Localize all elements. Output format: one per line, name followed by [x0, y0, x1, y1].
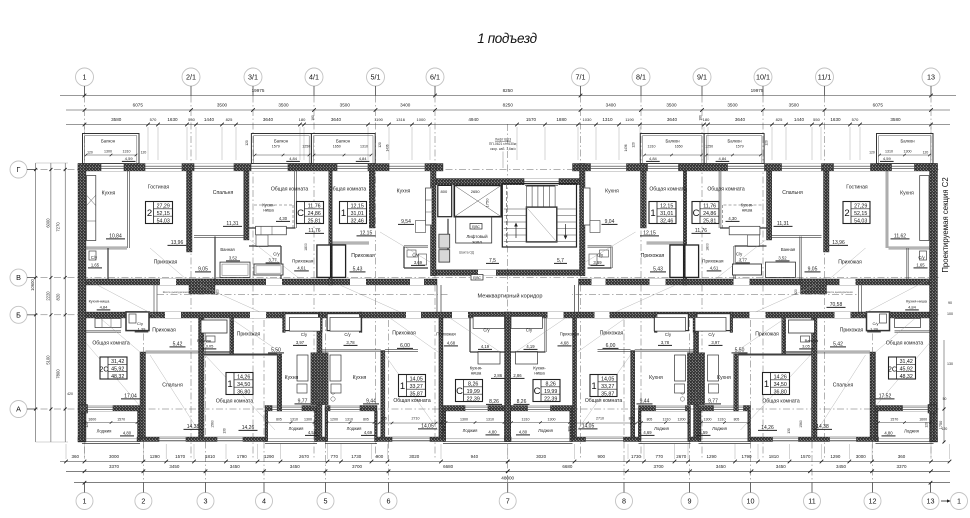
- studio L4 bath: [473, 316, 504, 328]
- svg-text:360: 360: [71, 454, 79, 459]
- svg-text:3020: 3020: [409, 454, 420, 459]
- svg-text:1650: 1650: [333, 145, 341, 149]
- partition studio su side (right): [733, 246, 735, 279]
- svg-text:33,27: 33,27: [410, 384, 423, 390]
- grid axis 9/1 (top): [693, 68, 711, 86]
- svg-text:48000: 48000: [501, 475, 514, 480]
- su pair walls lower: [285, 314, 319, 331]
- svg-text:Кухня: Кухня: [649, 375, 663, 381]
- vent shaft boxes upper: [317, 245, 331, 277]
- svg-text:Балкон: Балкон: [274, 139, 289, 144]
- svg-text:3500: 3500: [789, 103, 800, 108]
- center wall between studios (lower): [505, 318, 511, 437]
- svg-text:130: 130: [222, 428, 226, 434]
- electrical boxes: [470, 224, 482, 230]
- dim row 3 (detail spans): [66, 124, 950, 126]
- svg-text:180: 180: [699, 115, 703, 121]
- svg-text:1436: 1436: [624, 144, 628, 151]
- svg-text:4,80: 4,80: [884, 431, 893, 436]
- svg-text:1730: 1730: [631, 454, 642, 459]
- svg-text:1650: 1650: [675, 145, 683, 149]
- svg-text:360: 360: [898, 454, 906, 459]
- svg-text:8,26: 8,26: [468, 382, 478, 388]
- svg-text:4,84: 4,84: [359, 156, 368, 161]
- axis line 7 vertical (center): [507, 124, 509, 483]
- svg-text:1310: 1310: [885, 150, 893, 154]
- axis line Б horizontal: [27, 314, 940, 316]
- sink bath L2 lower: [206, 336, 215, 342]
- svg-text:А: А: [16, 405, 21, 414]
- svg-text:4,68: 4,68: [447, 341, 456, 346]
- svg-text:ниша: ниша: [263, 208, 274, 213]
- svg-text:10600: 10600: [30, 279, 35, 291]
- corridor centre dash line: [157, 293, 858, 295]
- svg-text:550: 550: [813, 117, 820, 122]
- svg-text:2С: 2С: [888, 366, 897, 373]
- svg-text:12,15: 12,15: [660, 204, 673, 210]
- svg-text:С/у: С/у: [91, 255, 98, 260]
- svg-text:1310: 1310: [360, 145, 368, 149]
- loggia L2 back wall (right): [699, 406, 751, 412]
- grid axis 2 (bottom): [135, 493, 152, 510]
- svg-text:940: 940: [471, 454, 479, 459]
- svg-text:825: 825: [226, 117, 233, 122]
- svg-text:3640: 3640: [735, 117, 746, 122]
- dim row 2 (axis spans): [66, 109, 950, 111]
- grid axis В (left): [10, 269, 27, 286]
- svg-text:3580: 3580: [890, 117, 901, 122]
- svg-text:25,81: 25,81: [703, 218, 716, 224]
- svg-text:С: С: [297, 208, 304, 219]
- svg-text:7/1: 7/1: [576, 73, 586, 82]
- axis line 9 vertical (bottom): [689, 320, 691, 493]
- svg-text:8250: 8250: [503, 88, 514, 93]
- svg-text:С/у: С/у: [526, 328, 533, 333]
- svg-text:35,87: 35,87: [410, 391, 423, 397]
- door/window loggia L1: [87, 406, 113, 412]
- svg-text:1: 1: [957, 497, 961, 506]
- wall L1 living/bedroom: [140, 352, 146, 437]
- svg-text:1570: 1570: [526, 117, 537, 122]
- axis line 10/1 vertical: [762, 96, 764, 461]
- svg-text:1436: 1436: [386, 144, 390, 151]
- stair arrows: [515, 224, 517, 238]
- svg-text:Проектируемая секция С2: Проектируемая секция С2: [941, 177, 950, 272]
- axis line 5/1 vertical: [375, 96, 377, 461]
- svg-text:1630: 1630: [167, 117, 178, 122]
- svg-text:120: 120: [378, 142, 382, 148]
- svg-text:Лоджия: Лоджия: [289, 426, 304, 431]
- partition su apt C bottom (right): [588, 266, 612, 268]
- center block lower wall: [436, 270, 580, 276]
- loggia L3 back wall (right): [639, 406, 691, 412]
- svg-text:4,69: 4,69: [643, 430, 652, 435]
- svg-text:С/у: С/у: [273, 252, 280, 257]
- svg-text:1300: 1300: [460, 418, 468, 422]
- svg-text:Спальня: Спальня: [213, 190, 234, 196]
- svg-text:1730: 1730: [351, 454, 362, 459]
- svg-text:1440: 1440: [204, 117, 215, 122]
- kitchen appliance apt C: [416, 221, 426, 233]
- svg-text:22,39: 22,39: [544, 396, 557, 402]
- balcony dim lines: [86, 154, 136, 156]
- svg-text:825: 825: [776, 117, 783, 122]
- svg-text:54,03: 54,03: [854, 218, 867, 224]
- svg-text:36,80: 36,80: [237, 389, 250, 395]
- elevator car: [456, 217, 492, 243]
- svg-text:1: 1: [83, 73, 87, 82]
- svg-text:Кухня: Кухня: [605, 189, 619, 195]
- axis line В horizontal: [27, 277, 940, 279]
- wall L2/L3 (right): [694, 318, 699, 437]
- wall L1/L2 (right): [812, 318, 818, 437]
- svg-text:48,32: 48,32: [900, 374, 913, 380]
- svg-text:1570: 1570: [890, 418, 898, 422]
- svg-text:3,52: 3,52: [778, 256, 787, 261]
- svg-text:ниша: ниша: [534, 371, 545, 376]
- grid axis 1 (bottom): [76, 493, 93, 510]
- axis line 4 vertical (bottom): [263, 320, 265, 493]
- svg-text:8: 8: [622, 497, 626, 506]
- svg-text:1316: 1316: [396, 117, 406, 122]
- svg-text:130: 130: [947, 362, 953, 366]
- grid axis Б (left): [10, 306, 27, 323]
- svg-text:4/1: 4/1: [309, 73, 319, 82]
- svg-text:Кухня-ниша: Кухня-ниша: [89, 300, 111, 304]
- svg-text:120: 120: [87, 151, 93, 155]
- svg-text:6680: 6680: [443, 464, 454, 469]
- area table L1: [100, 357, 127, 379]
- window living L2: [217, 437, 243, 442]
- partition studio niche: [249, 226, 296, 228]
- svg-text:920: 920: [216, 289, 220, 295]
- svg-text:120: 120: [942, 427, 948, 431]
- wall apt C living/kitchen: [369, 171, 375, 228]
- svg-text:Общая комната: Общая комната: [649, 187, 687, 193]
- svg-text:3450: 3450: [230, 464, 241, 469]
- svg-text:С: С: [534, 386, 541, 397]
- wall L2 bath/hall (right): [782, 318, 786, 355]
- svg-text:1290: 1290: [830, 454, 841, 459]
- svg-text:11,76: 11,76: [703, 204, 716, 210]
- bath apt A: [220, 262, 250, 277]
- svg-text:1570: 1570: [117, 418, 125, 422]
- dim row bottom 1: [60, 461, 950, 463]
- window living room: [145, 164, 182, 172]
- svg-text:900: 900: [597, 454, 605, 459]
- svg-text:1560: 1560: [211, 420, 215, 428]
- grid axis 9 (bottom): [681, 493, 698, 510]
- svg-text:Балкон: Балкон: [336, 139, 351, 144]
- svg-text:3400: 3400: [606, 103, 617, 108]
- svg-text:Лифтовый: Лифтовый: [466, 234, 488, 239]
- partition L2 bath bottom (right): [784, 350, 812, 352]
- studio L4 kitchen fixtures: [478, 352, 500, 364]
- svg-text:3,05: 3,05: [802, 344, 811, 349]
- svg-text:120: 120: [632, 142, 636, 148]
- area table apt A: [146, 202, 173, 224]
- svg-text:1790: 1790: [237, 454, 248, 459]
- svg-text:Спальня: Спальня: [782, 190, 803, 196]
- loggia side wall at centre: [505, 411, 511, 442]
- svg-text:3450: 3450: [776, 464, 787, 469]
- svg-text:3450: 3450: [836, 464, 847, 469]
- svg-text:13: 13: [927, 73, 935, 82]
- svg-text:1190: 1190: [374, 117, 383, 122]
- svg-text:1440: 1440: [794, 117, 805, 122]
- grid axis 6 (bottom): [380, 493, 397, 510]
- kitchen niche counter L1 lower: [95, 319, 121, 328]
- svg-text:Прихожая: Прихожая: [840, 328, 864, 334]
- svg-text:С/у: С/у: [412, 253, 419, 258]
- svg-text:Прихожая: Прихожая: [436, 331, 455, 336]
- partition L3 living top (right): [598, 349, 631, 351]
- svg-text:2: 2: [844, 208, 849, 219]
- svg-text:ниша: ниша: [742, 208, 753, 213]
- svg-text:33,27: 33,27: [601, 384, 614, 390]
- svg-text:1579: 1579: [736, 145, 744, 149]
- grid axis 4/1 (top): [305, 68, 323, 86]
- partition su apt C: [402, 247, 404, 269]
- partition L1 niche: [86, 330, 121, 332]
- window apt3 living: [337, 164, 368, 172]
- partition L2 bath bottom: [204, 350, 232, 352]
- door/window loggia L3: [330, 406, 360, 412]
- axis line 6/1 vertical: [434, 96, 436, 461]
- svg-text:Балкон: Балкон: [900, 139, 915, 144]
- svg-text:Ванная: Ванная: [197, 338, 211, 343]
- svg-text:2: 2: [141, 497, 145, 506]
- svg-text:1250: 1250: [705, 145, 713, 149]
- svg-text:С/у: С/у: [483, 328, 490, 333]
- grid axis 1 (top): [76, 68, 94, 86]
- svg-text:1310: 1310: [648, 145, 656, 149]
- svg-text:3: 3: [204, 497, 208, 506]
- svg-text:180: 180: [299, 117, 306, 122]
- svg-text:14,05: 14,05: [601, 377, 614, 383]
- kitchen appliances L2/L3: [297, 355, 308, 381]
- svg-text:12,15: 12,15: [351, 204, 364, 210]
- svg-text:С/у: С/у: [137, 321, 143, 326]
- svg-text:С/у: С/у: [918, 255, 925, 260]
- svg-text:Прихожая: Прихожая: [600, 331, 624, 337]
- kitchen counter apt A (left): [87, 176, 96, 241]
- svg-text:Кухня: Кухня: [900, 191, 914, 197]
- stair landing: [526, 207, 556, 242]
- partition kitchen niche studio (right): [718, 171, 720, 228]
- svg-text:Прихожая: Прихожая: [154, 260, 178, 266]
- vent shaft L1 corner: [79, 405, 88, 414]
- svg-text:4,69: 4,69: [364, 430, 373, 435]
- svg-text:31,01: 31,01: [660, 211, 673, 217]
- svg-text:Лифт Щ13: Лифт Щ13: [495, 138, 511, 142]
- svg-text:С/у: С/у: [873, 321, 879, 326]
- svg-text:1: 1: [227, 379, 232, 390]
- partition studio su: [249, 244, 281, 246]
- axis line 8 vertical (bottom): [623, 320, 625, 493]
- grid axis 10/1 (top): [754, 68, 772, 86]
- corridor lower wall (right): [505, 312, 930, 318]
- svg-text:1810: 1810: [205, 454, 216, 459]
- svg-text:4,84: 4,84: [100, 305, 109, 310]
- svg-text:1,65: 1,65: [916, 263, 925, 268]
- partition su apt C top: [404, 245, 428, 247]
- partition kitchen/living apt A: [127, 171, 129, 248]
- svg-text:3500: 3500: [278, 103, 289, 108]
- svg-text:19975: 19975: [751, 88, 764, 93]
- svg-text:Кухня: Кухня: [102, 191, 116, 197]
- wall jog at center block left (right): [580, 164, 586, 185]
- grid axis 5/1 (top): [367, 68, 385, 86]
- svg-text:805: 805: [381, 417, 387, 421]
- svg-text:9: 9: [688, 497, 692, 506]
- svg-text:6680: 6680: [562, 464, 573, 469]
- svg-text:4,30: 4,30: [728, 216, 737, 221]
- svg-text:8/1: 8/1: [636, 73, 646, 82]
- axis line 6 vertical (bottom): [388, 320, 390, 493]
- svg-text:570: 570: [852, 117, 859, 122]
- svg-text:550: 550: [188, 117, 195, 122]
- svg-text:1250: 1250: [302, 145, 310, 149]
- svg-text:4,19: 4,19: [526, 344, 535, 349]
- outer wall left/right: [78, 164, 86, 443]
- balcony top-left (4.59): [83, 134, 140, 164]
- svg-text:4,61: 4,61: [710, 266, 719, 271]
- svg-text:1310: 1310: [290, 418, 298, 422]
- svg-text:4,84: 4,84: [719, 156, 728, 161]
- svg-text:Кухня: Кухня: [397, 189, 411, 195]
- svg-text:Е|ВС: Е|ВС: [473, 276, 481, 280]
- svg-text:180: 180: [703, 117, 710, 122]
- svg-text:14,05: 14,05: [410, 377, 423, 383]
- svg-text:4,61: 4,61: [297, 266, 306, 271]
- svg-text:3580: 3580: [111, 117, 122, 122]
- svg-text:100: 100: [947, 312, 953, 316]
- svg-text:120: 120: [869, 151, 875, 155]
- partition kitchen/living apt A (right): [885, 171, 887, 248]
- wall bedroom/studio: [244, 171, 249, 240]
- svg-text:11: 11: [808, 497, 815, 506]
- svg-text:7800: 7800: [56, 369, 61, 379]
- svg-text:Лоджия: Лоджия: [347, 426, 362, 431]
- svg-text:1310: 1310: [663, 418, 671, 422]
- svg-text:4,59: 4,59: [308, 430, 317, 435]
- door openings corridor: [160, 279, 176, 285]
- svg-text:1880: 1880: [556, 117, 567, 122]
- vent shaft block corridor: [189, 279, 215, 294]
- stair left flight steps: [504, 208, 527, 210]
- svg-text:В: В: [16, 273, 21, 282]
- svg-text:Балкон: Балкон: [727, 139, 742, 144]
- window bedroom L1: [159, 437, 186, 442]
- svg-text:5: 5: [324, 497, 328, 506]
- kitchen columns L2/L3 (dark): [311, 353, 328, 405]
- svg-text:Лоджия: Лоджия: [904, 429, 919, 434]
- svg-text:С: С: [693, 208, 700, 219]
- grid axis 11 (bottom): [804, 493, 821, 510]
- kitchen counter apt C: [426, 188, 433, 225]
- svg-text:900: 900: [376, 454, 384, 459]
- svg-text:3,77: 3,77: [269, 258, 278, 263]
- svg-text:2670: 2670: [676, 454, 687, 459]
- svg-text:3450: 3450: [716, 464, 727, 469]
- dim row bottom 2: [66, 470, 950, 472]
- svg-text:9/1: 9/1: [697, 73, 707, 82]
- svg-text:1300: 1300: [548, 418, 556, 422]
- svg-text:4,19: 4,19: [481, 344, 490, 349]
- svg-text:Прихожая: Прихожая: [838, 260, 862, 266]
- grid axis 13 (top): [922, 68, 940, 86]
- svg-text:3400: 3400: [400, 103, 411, 108]
- svg-text:1310: 1310: [718, 418, 726, 422]
- wall living/bedroom apt A: [187, 171, 193, 252]
- loggia front parapets: [82, 440, 140, 442]
- svg-text:Шахта дымоудаления: Шахта дымоудаления: [826, 290, 853, 294]
- svg-text:4940: 4940: [468, 117, 479, 122]
- svg-text:Лоджия: Лоджия: [712, 426, 727, 431]
- grid axis 13 (bottom): [922, 493, 939, 510]
- svg-text:3,97: 3,97: [711, 340, 720, 345]
- partition su apt C bottom: [404, 266, 428, 268]
- svg-text:2710: 2710: [596, 417, 604, 421]
- svg-text:120: 120: [925, 422, 929, 428]
- svg-text:1200: 1200: [330, 418, 338, 422]
- wall apt C living/kitchen (right): [641, 171, 647, 228]
- wall living/bedroom apt A (right): [824, 171, 830, 252]
- partition L1 bedroom top: [146, 350, 199, 352]
- wall bedroom/studio (right): [767, 171, 772, 240]
- svg-text:1: 1: [650, 208, 655, 219]
- left dimension lines: [35, 163, 37, 442]
- wall studio/apt C (right): [683, 171, 686, 285]
- svg-text:Г: Г: [17, 165, 21, 174]
- partition su apt A: [106, 248, 108, 279]
- svg-text:48,32: 48,32: [111, 374, 124, 380]
- wall studio/apt C: [329, 171, 332, 285]
- axis line 7/1 vertical: [580, 96, 582, 461]
- svg-text:8250: 8250: [503, 103, 514, 108]
- shaft boxes left of hall: [439, 234, 450, 248]
- outer wall left/right (right): [930, 164, 938, 443]
- grid axis А (left): [10, 401, 27, 418]
- svg-text:3370: 3370: [896, 464, 907, 469]
- svg-text:120: 120: [85, 422, 89, 428]
- svg-text:10/1: 10/1: [756, 73, 770, 82]
- partition su apt C top (right): [588, 245, 612, 247]
- entrance door opening center: [524, 179, 559, 185]
- svg-text:1579: 1579: [272, 145, 280, 149]
- svg-text:770: 770: [655, 454, 663, 459]
- svg-text:3640: 3640: [331, 117, 342, 122]
- svg-text:С/у: С/у: [597, 253, 604, 258]
- partition bath apt A: [213, 237, 215, 280]
- partition L1 bedroom top (right): [817, 350, 870, 352]
- svg-text:3450: 3450: [169, 464, 180, 469]
- loggia side walls: [82, 411, 85, 442]
- svg-text:1290: 1290: [706, 454, 717, 459]
- wall L2/L3: [317, 318, 322, 437]
- svg-text:Общая комната: Общая комната: [585, 398, 623, 404]
- svg-text:1310: 1310: [602, 117, 613, 122]
- corridor upper wall (right): [579, 279, 930, 285]
- axis line 10 vertical (bottom): [750, 320, 752, 493]
- svg-text:Кухня: Кухня: [717, 375, 731, 381]
- svg-text:1: 1: [591, 381, 596, 392]
- svg-text:Прихожая: Прихожая: [392, 331, 416, 337]
- svg-text:300: 300: [568, 426, 572, 432]
- svg-text:Прихожая: Прихожая: [237, 332, 261, 338]
- svg-text:Ванная: Ванная: [805, 338, 819, 343]
